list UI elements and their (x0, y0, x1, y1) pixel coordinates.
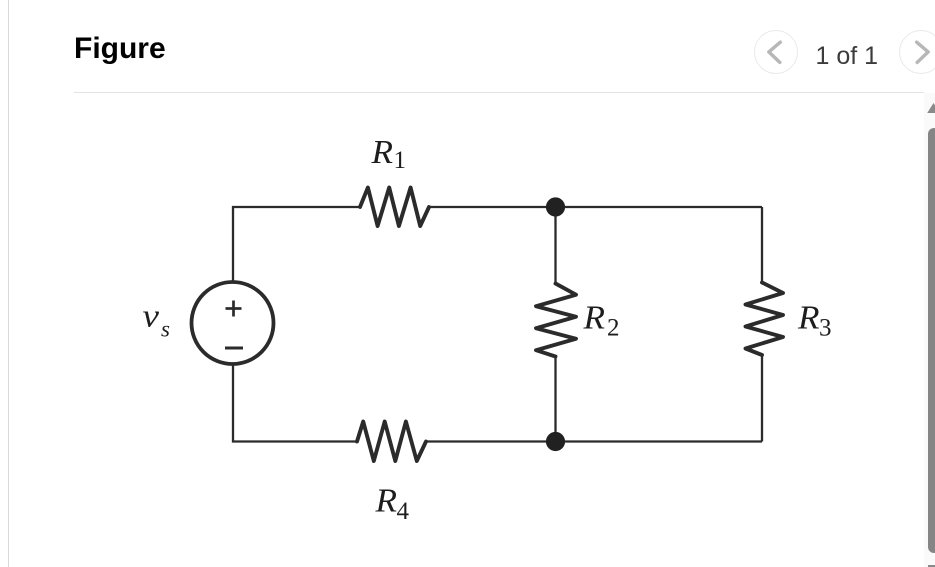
svg-text:4: 4 (397, 498, 410, 525)
node B junction dot (bottom) (546, 432, 565, 451)
wire bottom-right (R4 to right corner) (426, 440, 762, 442)
svg-text:R: R (797, 300, 820, 337)
next chevron (899, 30, 935, 74)
next page button (cut off at right edge) (899, 30, 935, 74)
heading "Figure" (74, 34, 166, 64)
resistor R2 (middle vertical zigzag) (536, 284, 576, 357)
node A junction dot (top) (546, 197, 565, 216)
svg-text:R: R (374, 483, 397, 520)
svg-text:2: 2 (607, 315, 620, 342)
scrollbar thumb (928, 128, 935, 553)
scrollbar up arrow (924, 93, 935, 123)
wire top-left (left corner to R1) (233, 207, 360, 282)
resistor R3 (right vertical zigzag) (746, 283, 784, 356)
scrollbar down arrow (sliver at bottom) (928, 565, 935, 567)
wire left-bottom (source to bottom-left corner to R4) (233, 364, 357, 442)
page indicator "1 of 1" (816, 44, 879, 69)
scrollbar track (924, 93, 935, 567)
header separator line (74, 92, 924, 93)
resistor R1 (top wire zigzag) (360, 188, 429, 227)
svg-text:R: R (582, 299, 605, 336)
minus sign inside source (225, 347, 243, 350)
wire right branch lower (R3 to bottom-right corner) (761, 355, 763, 442)
svg-text:s: s (161, 317, 170, 342)
wire right branch upper (top-right corner to R3) (761, 207, 763, 283)
svg-text:R: R (370, 134, 393, 171)
svg-text:1: 1 (394, 147, 407, 174)
wire top-right (R1 to right corner) (429, 206, 762, 208)
resistor R4 (bottom wire zigzag) (357, 422, 426, 462)
left page border (8, 0, 9, 567)
prev chevron (754, 30, 798, 74)
svg-text:v: v (143, 299, 160, 335)
wire middle branch lower (R2 to node B) (554, 357, 556, 442)
prev page button (754, 30, 798, 74)
voltage source vs (circle) (192, 282, 274, 364)
wire middle branch upper (node A to R2) (554, 207, 556, 284)
svg-text:3: 3 (819, 315, 832, 342)
plus sign inside source (226, 301, 242, 317)
